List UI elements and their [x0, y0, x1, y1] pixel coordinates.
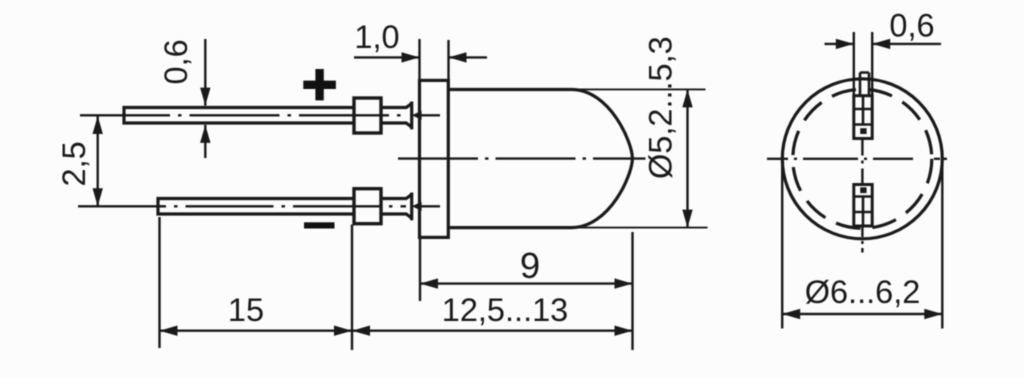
svg-text:9: 9	[520, 245, 540, 286]
svg-text:12,5...13: 12,5...13	[442, 292, 569, 328]
svg-text:Ø5,2...5,3: Ø5,2...5,3	[643, 36, 679, 179]
svg-text:0,6: 0,6	[889, 8, 934, 44]
svg-text:2,5: 2,5	[56, 141, 92, 186]
svg-text:0,6: 0,6	[158, 39, 194, 84]
svg-text:15: 15	[228, 292, 264, 328]
svg-text:1,0: 1,0	[354, 19, 399, 55]
svg-text:Ø6...6,2: Ø6...6,2	[805, 274, 921, 310]
